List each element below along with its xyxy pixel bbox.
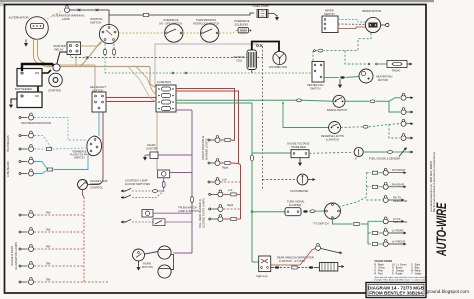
wire illumination 2 red dashed <box>34 231 84 233</box>
wire trunk lamp purple <box>153 212 192 214</box>
radio <box>387 61 407 68</box>
svg-text:COURTESY LAMP: COURTESY LAMP <box>125 179 148 183</box>
wire illumination 4 red dashed <box>34 265 84 267</box>
gauge voltage stabilizer <box>291 150 309 158</box>
svg-text:LOW BEAMS: LOW BEAMS <box>6 161 10 177</box>
heater fan switch <box>312 62 324 83</box>
wire tan fuse drop <box>156 112 158 170</box>
svg-text:BATTERIES: BATTERIES <box>15 87 32 91</box>
svg-text:REAR WINDOW DEFROSTER: REAR WINDOW DEFROSTER <box>277 256 314 260</box>
lamp rh rear <box>383 182 388 189</box>
connector on acc drop <box>104 48 107 55</box>
wire wiper green dashed return <box>324 33 371 51</box>
lamp reverse right <box>401 119 406 126</box>
wire battery to starter <box>42 70 51 73</box>
svg-text:RW: RW <box>46 245 51 249</box>
horn button <box>133 249 145 261</box>
alternator <box>26 17 49 40</box>
wire reverse lamp 2 arrow <box>407 137 414 139</box>
wire reverse branch down <box>389 124 400 138</box>
svg-text:SWITCH: SWITCH <box>74 156 85 160</box>
door switch 2 <box>121 191 164 198</box>
wire reverse out dashed <box>341 126 362 129</box>
battery 2 <box>17 92 42 108</box>
brake switch <box>333 95 345 107</box>
lamp tail 2 <box>209 205 223 212</box>
defroster switch <box>259 256 271 272</box>
svg-text:FUSE BOX: FUSE BOX <box>157 80 171 84</box>
connector x1 <box>78 9 81 12</box>
wire flasher to ts switch <box>316 210 325 212</box>
svg-text:TURN SIGNAL: TURN SIGNAL <box>287 200 305 204</box>
reverse switch <box>329 122 341 134</box>
svg-text:TRUNK/HATCH: TRUNK/HATCH <box>178 206 197 210</box>
connector x3 <box>86 56 89 59</box>
svg-text:FUEL GAUGE & SENDER: FUEL GAUGE & SENDER <box>369 157 400 161</box>
svg-text:HIGH BEAMS: HIGH BEAMS <box>6 135 10 152</box>
battery ground <box>10 99 18 108</box>
dimmer flash-to-pass switch <box>87 136 102 156</box>
alternator ground <box>25 40 28 47</box>
courtesy lamp box <box>158 170 170 178</box>
wire lh rear arrow <box>389 232 406 234</box>
wire parking 2 red <box>221 162 239 165</box>
connector green rail <box>296 99 301 102</box>
wire horn interconnect <box>171 255 174 270</box>
wire fuel sender arrow <box>408 151 413 153</box>
wire yellow alternator to lamp <box>44 12 61 22</box>
wire fuel gauge out <box>363 151 387 153</box>
lamp rh front <box>383 168 388 175</box>
title box <box>366 283 426 298</box>
transmission interlock switch <box>201 24 219 42</box>
wire hb indicator teal dashed <box>34 118 87 141</box>
svg-text:COIL: COIL <box>236 58 243 62</box>
wire lh ind arrow <box>389 220 404 222</box>
svg-text:WIPER MOTOR: WIPER MOTOR <box>362 9 381 13</box>
lamp lh front <box>383 240 388 247</box>
ignition coil <box>247 50 257 70</box>
ignition switch <box>99 24 118 43</box>
svg-text:OVERDRIVE: OVERDRIVE <box>234 19 250 23</box>
wire lb main to dimmer <box>54 156 89 170</box>
wire brake to lamps <box>376 98 400 102</box>
gray service line <box>155 44 258 86</box>
connector green circles <box>314 50 316 52</box>
starter <box>49 73 63 87</box>
wire fuel pump ground <box>268 14 279 21</box>
starter solenoid <box>53 64 60 71</box>
connector brake oval <box>370 100 375 103</box>
lamp high beam left <box>19 131 34 138</box>
connector coil x <box>257 44 263 47</box>
svg-text:LAMP: LAMP <box>62 17 70 21</box>
wire green fuse out 1 (brake rail) <box>176 99 296 101</box>
auto-wire logo <box>434 202 449 257</box>
wire tail 3 <box>223 218 240 221</box>
wire black dashed to tach <box>263 179 298 181</box>
wire green dash to heater switch <box>313 51 317 62</box>
svg-text:Y Yellow: Y Yellow <box>411 273 422 276</box>
wire alternator output tan <box>34 39 47 67</box>
stabilizer ground <box>299 158 302 166</box>
defroster heating element <box>319 263 337 272</box>
wire defroster element black dashed <box>271 266 320 269</box>
wire ignition top rail <box>109 13 254 15</box>
trunk switch <box>121 219 192 226</box>
svg-text:FROM BENTLEY 36B264: FROM BENTLEY 36B264 <box>369 291 423 296</box>
lamp brake right <box>401 93 406 100</box>
svg-text:RW: RW <box>46 262 51 266</box>
wire tan into fuse box <box>150 67 156 89</box>
wire red jog to tail bus <box>239 164 241 220</box>
horn button ground <box>137 261 140 270</box>
wiper switch <box>322 16 338 33</box>
svg-text:FRONT PARKING &: FRONT PARKING & <box>201 136 205 160</box>
connector reverse oval <box>363 125 368 128</box>
wire brake out green <box>345 100 369 102</box>
svg-text:mgb exp: mgb exp <box>256 274 268 278</box>
wire brake lamp arrow <box>407 97 414 99</box>
svg-text:FLASHER: FLASHER <box>289 203 301 207</box>
connector radio 2 <box>376 63 378 65</box>
lamp high beam indicator <box>19 113 34 120</box>
svg-text:FUEL PUMP: FUEL PUMP <box>253 4 269 8</box>
fuel pump <box>257 10 268 18</box>
svg-text:INDICATOR: INDICATOR <box>393 199 407 203</box>
svg-text:May be freely reproduced for p: May be freely reproduced for personal no… <box>433 151 436 212</box>
wire maroon drop to gauge dimmer <box>88 112 103 185</box>
wire heater switch to motor green <box>324 77 339 79</box>
svg-text:RW: RW <box>46 211 51 215</box>
svg-text:HEATER FAN: HEATER FAN <box>376 75 392 79</box>
connector hb <box>46 148 51 151</box>
wire defroster indicator red <box>271 249 315 266</box>
svg-text:SWITCH: SWITCH <box>90 21 101 25</box>
wire to heater motor <box>346 77 360 78</box>
svg-text:Left: Left <box>222 178 227 182</box>
wire relay black to starter <box>57 52 67 64</box>
top scan edge <box>0 0 434 2</box>
wire stabilizer out dashed green <box>309 152 353 153</box>
trunk lamp <box>142 210 153 218</box>
wire tach arrow <box>308 179 315 181</box>
wire illumination 3 red dashed <box>34 248 84 250</box>
svg-text:RW: RW <box>46 228 51 232</box>
connector fuel oval <box>387 151 392 154</box>
black dashed run rail vertical <box>262 46 264 190</box>
battery 1 <box>17 69 42 87</box>
lamp rh ts indicator <box>383 196 388 203</box>
lamp tail 3 <box>209 215 223 222</box>
svg-text:RH REAR: RH REAR <box>392 182 404 186</box>
connector lb <box>47 168 52 171</box>
lamp illumination 2 <box>19 228 34 235</box>
lamp low beam 1 <box>19 157 34 164</box>
turn signal flasher <box>285 208 301 216</box>
svg-text:DIAGRAM 14 - 72/73 MGB: DIAGRAM 14 - 72/73 MGB <box>368 285 425 290</box>
wire rh indicator row <box>366 199 382 201</box>
wire rh ind arrow <box>389 199 404 201</box>
wire wiper red dashed <box>338 23 366 26</box>
svg-text:HEATER FAN: HEATER FAN <box>307 83 323 87</box>
junction green <box>282 102 284 104</box>
svg-text:RELAY: RELAY <box>55 48 64 52</box>
svg-text:REVERSE LIGHTS: REVERSE LIGHTS <box>321 134 344 138</box>
svg-text:GAUGE VOLTAGE: GAUGE VOLTAGE <box>287 142 310 146</box>
wire brake branch down <box>389 101 400 112</box>
lamp defroster indicator <box>316 244 321 251</box>
wire lh feed green solid <box>333 218 353 225</box>
green main vertical <box>251 103 253 262</box>
wire tan feeder 2 <box>136 67 156 96</box>
wire alternator output tan 2 <box>38 39 50 65</box>
lamp illumination 4 <box>19 262 34 269</box>
wire headlight switch red out 2 <box>106 101 156 103</box>
wire lh indicator row <box>368 220 383 222</box>
green dashed accessory rail <box>105 72 312 74</box>
color codes legend <box>374 260 426 281</box>
svg-text:SWITCH: SWITCH <box>324 12 335 16</box>
svg-text:MARKER LIGHTS: MARKER LIGHTS <box>205 138 209 160</box>
svg-text:TAIL, REAR MARKER &: TAIL, REAR MARKER & <box>198 199 202 228</box>
wire tan drop to headlight switch <box>94 65 96 92</box>
connector green vertical oval <box>250 155 253 161</box>
horn 2 <box>158 265 171 278</box>
wire courtesy purple feed <box>170 172 192 174</box>
wire wiper teal dashed <box>338 20 366 23</box>
horn 1 <box>158 246 171 259</box>
gauge lamp dimmer control <box>78 180 88 190</box>
wire yellow to solenoid <box>219 31 238 34</box>
svg-text:LH REAR: LH REAR <box>392 229 404 233</box>
wire ignition yellow to overdrive <box>119 32 164 34</box>
wire reverse lamp arrow <box>407 123 414 125</box>
wire rh front arrow <box>389 172 406 174</box>
wire HT lead <box>252 42 279 52</box>
lamp parking 2 <box>208 159 220 166</box>
connector x2 <box>96 9 99 12</box>
wire parking 1 red <box>221 139 235 142</box>
svg-text:STABILIZER: STABILIZER <box>291 145 306 149</box>
svg-text:ILLUMINATION LAMPS: ILLUMINATION LAMPS <box>14 242 18 270</box>
svg-text:ALTERNATOR: ALTERNATOR <box>9 16 30 20</box>
red dashed illumination bus <box>83 197 85 282</box>
cigar lighter <box>144 152 159 160</box>
overdrive on-off switch <box>165 24 183 42</box>
svg-text:Right: Right <box>222 166 228 170</box>
wire defroster indicator arrow <box>321 249 342 254</box>
wire brake lamp 2 arrow <box>407 111 414 113</box>
wire lh rear row <box>368 232 383 235</box>
purple main vertical <box>191 110 193 253</box>
lamp lh rear <box>383 229 388 236</box>
wire green reverse feed <box>283 103 329 128</box>
distributor <box>273 51 286 64</box>
svg-text:OVERDRIVE: OVERDRIVE <box>163 18 179 22</box>
lamp illumination 5 <box>19 278 34 285</box>
lamp high beam right <box>19 145 34 152</box>
headlight switch <box>92 92 106 112</box>
svg-text:MOTOR: MOTOR <box>378 78 388 82</box>
wire hb to dimmer <box>53 148 88 149</box>
lamp illumination 1 <box>19 211 34 218</box>
wire rh feed green dashed <box>339 173 367 207</box>
connector heater oval <box>340 76 345 78</box>
wire green rail to brake switch <box>302 100 333 101</box>
lamp illumination 3 <box>19 245 34 252</box>
svg-text:RH FRONT: RH FRONT <box>392 168 406 172</box>
wire lb1 <box>34 162 47 170</box>
starter relay <box>67 42 81 55</box>
wire lh front arrow <box>389 243 406 245</box>
wire purple fuse out <box>176 109 192 111</box>
wire purple to horns <box>174 252 193 254</box>
svg-text:LAMP & SWITCH: LAMP & SWITCH <box>178 209 199 213</box>
svg-text:CONTROL: CONTROL <box>90 185 103 189</box>
heater fan motor <box>359 69 373 83</box>
wire ignition acc teal drop <box>104 44 106 73</box>
wire main tan bundle <box>46 66 150 68</box>
wire green fuse out 2 <box>176 102 252 104</box>
wire tan feeder 3 <box>128 67 156 103</box>
fuse on purple <box>191 196 194 203</box>
wiper motor <box>365 17 380 32</box>
wire lb2 <box>34 171 47 174</box>
svg-text:HORN: HORN <box>143 262 151 266</box>
wire rh rear arrow <box>389 186 406 188</box>
svg-text:DISTRIBUTOR: DISTRIBUTOR <box>269 65 287 69</box>
svg-text:LICENSE PLATE LAMPS: LICENSE PLATE LAMPS <box>202 198 206 228</box>
wire dimmer to red bus <box>83 190 85 198</box>
svg-text:TACHOMETER: TACHOMETER <box>290 189 308 193</box>
svg-text:& SWITCH: & SWITCH <box>326 137 339 141</box>
wire horn button to horns <box>145 252 159 255</box>
svg-text:LH FRONT: LH FRONT <box>392 240 406 244</box>
wire hb main teal dashed <box>34 148 45 150</box>
wire parking 3 red dashed <box>221 181 241 183</box>
wire illumination 5 red dashed <box>34 281 109 283</box>
svg-text:RH TS: RH TS <box>393 196 401 200</box>
wire wiper brown <box>338 27 366 29</box>
wire radio out arrow <box>407 63 412 65</box>
svg-text:LIGHTER: LIGHTER <box>146 146 158 150</box>
svg-text:TRANSMISSION: TRANSMISSION <box>196 18 216 22</box>
svg-text:RADIO: RADIO <box>392 69 400 73</box>
svg-text:CIGAR: CIGAR <box>147 143 155 147</box>
lamp lh ts indicator <box>383 217 388 224</box>
svg-text:HIGH BEAM INDICATOR: HIGH BEAM INDICATOR <box>21 121 51 125</box>
svg-text:SWITCH: SWITCH <box>310 86 321 90</box>
wire rh rear row <box>366 185 382 188</box>
connector lh rect <box>354 223 359 226</box>
wire radio link <box>378 63 387 65</box>
wire headlight switch red out 1 <box>106 97 156 99</box>
svg-text:*TS SWITCH: *TS SWITCH <box>313 222 329 226</box>
wire ignition run drop <box>113 44 115 58</box>
svg-text:& DOOR SWITCHES: & DOOR SWITCHES <box>125 182 150 186</box>
wire reverse to lamps dashed <box>369 124 400 127</box>
connector acc rail 1 <box>172 72 174 74</box>
wire green to flasher <box>252 211 285 213</box>
warning lamp <box>65 6 70 13</box>
lamp parking 3 <box>208 178 220 185</box>
wire rh front row <box>366 171 382 174</box>
svg-text:Example: NW = Brown with White: Example: NW = Brown with White tracer. *… <box>374 278 426 281</box>
connector on run drop <box>113 48 116 55</box>
wire battery interconnect <box>37 86 39 92</box>
wire lh to bus <box>361 221 369 244</box>
fuel gauge <box>354 147 363 159</box>
svg-text:P Purple: P Purple <box>392 273 403 276</box>
connector radio 1 <box>368 63 370 65</box>
fuse box <box>156 85 176 112</box>
svg-text:IGNITION: IGNITION <box>233 55 245 59</box>
svg-text:R Red: R Red <box>374 273 383 276</box>
wire element arrow <box>338 266 344 268</box>
connector inline top rail <box>143 14 148 17</box>
wire red fuse out 2 <box>176 91 239 164</box>
auto-wire margin small text <box>430 151 436 212</box>
svg-text:INDICATOR: INDICATOR <box>393 220 407 224</box>
wire lh front row <box>368 243 383 246</box>
svg-text:LH TS: LH TS <box>393 217 401 221</box>
svg-text:GAUGE & DASH: GAUGE & DASH <box>10 246 14 266</box>
lamp low beam 2 <box>19 169 34 176</box>
wire cigar to purple <box>158 154 192 156</box>
svg-text:BRAKE SWITCH: BRAKE SWITCH <box>327 108 347 112</box>
wire yellow interlock link <box>183 32 201 34</box>
connector wiper return oval <box>318 49 323 52</box>
wiper motor terminal <box>381 23 389 26</box>
wire headlight switch teal drop <box>98 112 100 136</box>
svg-text:Left: Left <box>228 188 233 192</box>
svg-text:AUTO-WIRE: AUTO-WIRE <box>434 202 449 257</box>
door switch 1 <box>121 188 164 192</box>
wire relay drop tan <box>75 55 77 67</box>
wire green to defroster <box>252 261 259 263</box>
wire radio feed dashed <box>345 51 366 64</box>
wire coil feed <box>251 70 253 74</box>
lamp brake left <box>401 108 406 115</box>
heater ground <box>339 79 342 88</box>
wire relay to ignition tan <box>81 43 102 47</box>
svg-text:ground.blogspot.com: ground.blogspot.com <box>426 289 469 294</box>
svg-text:BUTTON: BUTTON <box>142 265 153 269</box>
ts switch <box>325 203 341 219</box>
svg-text:STARTER: STARTER <box>48 89 61 93</box>
junction green flasher <box>251 211 253 213</box>
wire battery thick positive <box>22 64 54 71</box>
wire illumination 1 red dashed <box>34 214 84 216</box>
overdrive solenoid <box>238 28 251 34</box>
fuel sender <box>393 148 408 157</box>
courtesy fuse <box>162 178 165 188</box>
lamp parking 1 <box>208 136 220 143</box>
svg-text:www.advanceautowire.com MGB,: www.advanceautowire.com MGB, MGC, MGBV8 <box>430 160 433 212</box>
lamp reverse left <box>401 134 406 141</box>
svg-text:Right: Right <box>227 203 233 207</box>
connector acc rail 2 <box>185 72 187 74</box>
wire tan ignition feed curve <box>80 42 101 67</box>
wire lamp to ignition switch <box>70 10 109 25</box>
wire tail 1 <box>223 193 240 196</box>
tachometer <box>297 174 308 185</box>
wire green stabilizer feed <box>252 152 291 154</box>
svg-text:SOLENOID: SOLENOID <box>235 22 249 26</box>
lamp tail 1 <box>209 190 223 197</box>
wire tail 2 dashed <box>223 208 240 210</box>
